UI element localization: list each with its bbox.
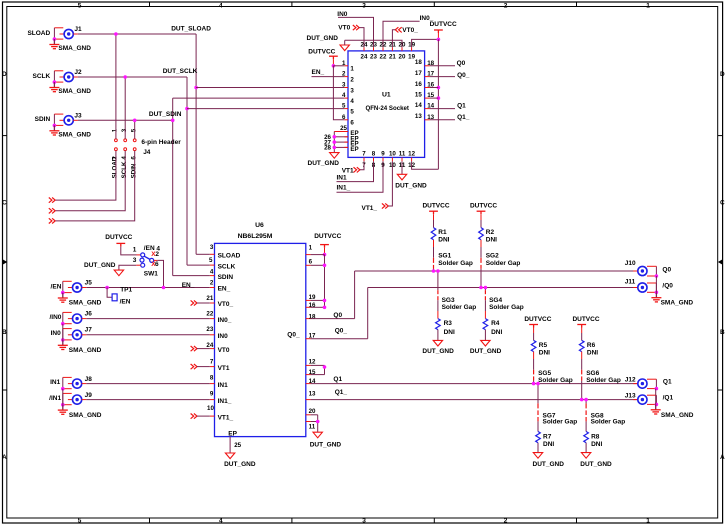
junction EP 27 (333, 140, 337, 144)
svg-text:24: 24 (206, 342, 213, 349)
op-amp U6 body (NB6L295M) (215, 243, 306, 436)
junction DUTVCC rail top (437, 38, 441, 42)
svg-text:DUTVCC: DUTVCC (524, 316, 551, 323)
svg-text:DUT_GND: DUT_GND (395, 182, 427, 189)
svg-text:R4: R4 (491, 320, 500, 327)
wire J2 to header pin3 (124, 77, 126, 139)
wire IN1_ to pin9 (337, 161, 384, 192)
svg-text:DUTVCC: DUTVCC (308, 49, 335, 56)
svg-text:21: 21 (206, 295, 213, 302)
junction pin16 DUTVCC (437, 86, 441, 90)
switch SW1 (141, 253, 145, 257)
svg-text:SG2: SG2 (486, 253, 499, 260)
wire Q1_ (U1 pin13) (430, 119, 455, 121)
wire U6 pins 12/15 tie (311, 364, 325, 366)
solder gap SG7 / resistor R7 column (537, 384, 539, 404)
svg-text:Q0_: Q0_ (335, 328, 348, 335)
junction U6 pin11 (316, 420, 320, 424)
ground DUT_GND (U1 EP) (330, 153, 339, 159)
U6 VT1_ chevron (191, 414, 197, 419)
junction U6 pin6 (323, 264, 327, 268)
wire header pin4 to chevron (56, 151, 126, 211)
off-page chevron SLOAD (49, 198, 55, 203)
svg-text:IN1_: IN1_ (218, 398, 232, 405)
wire J8/J9 ground link (62, 389, 64, 405)
svg-text:DNI: DNI (539, 350, 550, 357)
svg-text:/EN: /EN (51, 283, 62, 290)
svg-text:Q1: Q1 (663, 379, 672, 386)
svg-text:2: 2 (155, 251, 159, 258)
svg-text:13: 13 (309, 391, 316, 398)
svg-text:22: 22 (380, 54, 387, 61)
svg-text:R6: R6 (587, 342, 596, 349)
wire DUT_SDIN to U6 (173, 275, 210, 277)
svg-text:R5: R5 (539, 342, 548, 349)
svg-text:Solder Gap: Solder Gap (538, 377, 573, 384)
junction U6 pin1 (323, 253, 327, 257)
wire J3 to header pin5 (134, 120, 136, 139)
svg-text:6: 6 (309, 258, 313, 265)
svg-text:SCLK: SCLK (121, 161, 128, 178)
wire EN_ rail (86, 287, 210, 289)
svg-text:7: 7 (362, 151, 366, 158)
svg-text:SMA_GND: SMA_GND (69, 347, 102, 354)
U1 top pin stubs (363, 47, 365, 51)
svg-text:SCLK: SCLK (32, 73, 50, 80)
svg-text:22: 22 (206, 310, 213, 317)
svg-text:J10: J10 (625, 260, 636, 267)
svg-text:QFN-24 Socket: QFN-24 Socket (365, 105, 409, 112)
svg-text:TP1: TP1 (120, 286, 132, 293)
svg-text:SG4: SG4 (489, 297, 502, 304)
svg-text:J5: J5 (85, 279, 93, 286)
svg-text:5: 5 (209, 257, 213, 264)
ground DUT_GND (U6 pins 20/11) (313, 432, 322, 438)
wire Q1 net (311, 383, 638, 385)
svg-text:18: 18 (309, 313, 316, 320)
svg-text:B: B (720, 329, 725, 336)
svg-text:12: 12 (309, 359, 316, 366)
solder gap SG8 / resistor R8 column (585, 400, 587, 404)
wire IN0 to pin23 (338, 17, 374, 47)
svg-text:16: 16 (415, 81, 422, 88)
svg-text:VT1: VT1 (342, 167, 354, 174)
svg-text:SMA_GND: SMA_GND (58, 45, 91, 52)
off-page chevron SCLK (49, 208, 55, 213)
svg-text:DUT_SLOAD: DUT_SLOAD (171, 25, 211, 32)
wire VT0_ to pin21 (392, 30, 395, 48)
svg-text:A: A (2, 454, 7, 461)
svg-text:5: 5 (350, 108, 354, 115)
svg-text:4: 4 (350, 98, 354, 105)
svg-text:SDIN: SDIN (131, 163, 138, 178)
svg-text:C: C (720, 200, 725, 207)
svg-text:Q1_: Q1_ (335, 389, 348, 396)
svg-text:DUT_GND: DUT_GND (84, 262, 116, 269)
svg-text:DUT_GND: DUT_GND (224, 461, 256, 468)
svg-text:SMA_GND: SMA_GND (58, 88, 91, 95)
connector J3 (53, 114, 55, 125)
connector J4 6-pin header (115, 139, 118, 142)
ground SMA_GND (J5) (58, 293, 68, 303)
svg-text:13: 13 (415, 113, 422, 120)
junction U6 pin19 (323, 299, 327, 303)
svg-text:J1: J1 (74, 26, 82, 33)
svg-text:7: 7 (210, 359, 214, 366)
svg-text:3: 3 (362, 2, 366, 9)
junction DUT_SDIN/J3 (171, 119, 175, 123)
svg-text:J9: J9 (85, 392, 93, 399)
wire EP bus (333, 132, 335, 153)
svg-text:DUTVCC: DUTVCC (105, 234, 132, 241)
connector J1 (53, 28, 55, 39)
svg-text:VT0_: VT0_ (218, 301, 234, 308)
svg-text:VT1_: VT1_ (362, 205, 378, 212)
svg-text:A: A (720, 454, 725, 461)
svg-text:9: 9 (210, 390, 214, 397)
svg-text:DUT_GND: DUT_GND (307, 35, 339, 42)
svg-text:1: 1 (646, 2, 650, 9)
wire DUT_SCLK to U6 (187, 264, 210, 266)
svg-text:VT0: VT0 (338, 25, 350, 32)
svg-text:17: 17 (415, 70, 422, 77)
svg-text:U6: U6 (255, 222, 264, 229)
svg-text:Q0: Q0 (457, 60, 466, 67)
wire J6/J7 ground link (62, 324, 64, 340)
wire Q0_ net (311, 338, 368, 340)
svg-text:5: 5 (78, 2, 82, 9)
ground DUT_GND (U1 pin11) (401, 161, 403, 174)
wire header pin2 to chevron (56, 151, 116, 201)
svg-text:R3: R3 (444, 320, 453, 327)
junction pin15 DUTVCC (437, 96, 441, 100)
wire DUTVCC rail right side (437, 39, 439, 169)
svg-text:3: 3 (350, 87, 354, 94)
junction EP 26 (333, 135, 337, 139)
svg-text:SMA_GND: SMA_GND (58, 132, 91, 139)
ground SMA_GND (J12/J13) (651, 404, 661, 414)
wire Q1_ net (311, 399, 638, 401)
U6 VT0 chevron (191, 346, 197, 351)
svg-text:EP: EP (228, 430, 237, 437)
test point TP1 (107, 288, 112, 298)
svg-text:Solder Gap: Solder Gap (442, 304, 477, 311)
svg-text:SMA_GND: SMA_GND (661, 299, 694, 306)
ground SMA_GND (J1) (49, 39, 59, 49)
svg-text:20: 20 (309, 408, 316, 415)
U6 left pin stubs (210, 253, 215, 255)
svg-text:IN0: IN0 (51, 330, 62, 337)
svg-text:6-pin Header: 6-pin Header (141, 139, 181, 146)
solder gap SG4 / resistor R4 column (484, 288, 486, 291)
svg-text:IN0_: IN0_ (218, 317, 232, 324)
svg-text:3: 3 (362, 518, 366, 525)
svg-text:EN_: EN_ (182, 282, 195, 289)
wire Q1 (U1 pin14) (430, 108, 455, 110)
wire DUT_SDIN (78, 119, 173, 121)
svg-text:SLOAD: SLOAD (218, 253, 241, 260)
svg-text:J3: J3 (74, 112, 82, 119)
svg-text:/Q0: /Q0 (662, 283, 673, 290)
wire J10/J11 ground link (655, 276, 657, 292)
wire IN1_ J9 to U6 (86, 399, 210, 401)
svg-text:28: 28 (324, 145, 331, 152)
svg-text:VT1: VT1 (218, 365, 230, 372)
svg-text:4: 4 (210, 268, 214, 275)
svg-text:Q0: Q0 (662, 266, 671, 273)
svg-text:DNI: DNI (587, 350, 598, 357)
svg-text:IN0: IN0 (218, 333, 229, 340)
svg-text:Q1_: Q1_ (457, 114, 470, 121)
svg-text:U1: U1 (382, 92, 391, 99)
svg-text:SG5: SG5 (538, 370, 551, 377)
svg-text:/EN: /EN (120, 298, 131, 305)
svg-text:VT0_: VT0_ (402, 27, 418, 34)
svg-text:R8: R8 (591, 433, 600, 440)
svg-text:Solder Gap: Solder Gap (486, 260, 521, 267)
svg-text:SMA_GND: SMA_GND (69, 412, 102, 419)
svg-text:2: 2 (504, 2, 508, 9)
wire IN0_ J6 to U6 (86, 318, 210, 320)
svg-text:R7: R7 (543, 433, 552, 440)
svg-text:VT0: VT0 (218, 347, 230, 354)
svg-text:SDIN: SDIN (35, 116, 51, 123)
wire U6 DUTVCC rail (324, 255, 326, 308)
svg-text:SMA_GND: SMA_GND (69, 300, 102, 307)
svg-text:1: 1 (309, 245, 313, 252)
svg-text:21: 21 (389, 54, 396, 61)
wire DUT_SLOAD (78, 33, 196, 35)
solder gap SG3 / resistor R3 column (437, 271, 439, 290)
svg-text:3: 3 (121, 128, 128, 132)
connector J9 (62, 393, 64, 404)
ground SMA_GND (J2) (49, 82, 59, 92)
connector J8 (62, 377, 64, 388)
wire DUTVCC to pin19 (412, 39, 439, 47)
svg-text:Q0: Q0 (333, 312, 342, 319)
wire pin5 to DUT_SCLK (187, 108, 344, 110)
ground SMA_GND (J8/J9) (58, 405, 68, 415)
junction DUT_SCLK/pin5 (185, 107, 189, 111)
svg-text:DUTVCC: DUTVCC (470, 203, 497, 210)
svg-text:DNI: DNI (591, 441, 602, 448)
svg-text:20: 20 (399, 54, 406, 61)
svg-text:3: 3 (133, 257, 137, 264)
svg-text:Solder Gap: Solder Gap (591, 419, 626, 426)
ground DUT_GND (U6 EP) (225, 453, 234, 459)
svg-text:DUT_GND: DUT_GND (580, 461, 612, 468)
wire DUT_GND to pin20 (344, 40, 346, 45)
svg-text:8: 8 (210, 375, 214, 382)
U6 VT1 chevron (191, 364, 197, 369)
svg-text:5: 5 (131, 128, 138, 132)
svg-text:15: 15 (309, 369, 316, 376)
wire IN0 J7 to U6 (86, 334, 210, 336)
svg-text:DUT_GND: DUT_GND (310, 442, 342, 449)
svg-text:Solder Gap: Solder Gap (489, 304, 524, 311)
svg-text:VT1_: VT1_ (218, 414, 234, 421)
svg-text:4: 4 (219, 2, 223, 9)
svg-text:2: 2 (210, 280, 214, 287)
U1 right pin stubs (425, 65, 430, 67)
svg-text:11: 11 (399, 151, 406, 158)
wire IN1 to pin8 (337, 161, 374, 181)
off-page chevron SDIN (49, 218, 55, 223)
svg-text:1: 1 (350, 66, 354, 73)
svg-text:18: 18 (415, 59, 422, 66)
svg-text:SLOAD: SLOAD (112, 156, 119, 178)
svg-text:11: 11 (309, 423, 316, 430)
svg-text:DNI: DNI (543, 441, 554, 448)
svg-text:DUT_GND: DUT_GND (470, 348, 502, 355)
svg-text:J6: J6 (85, 310, 93, 317)
svg-text:19: 19 (408, 54, 415, 61)
svg-text:/IN1: /IN1 (49, 395, 61, 402)
svg-text:DUTVCC: DUTVCC (572, 316, 599, 323)
junction SW1/EN (162, 286, 166, 290)
wire DUT_SCLK (78, 76, 187, 78)
svg-text:6: 6 (155, 261, 159, 268)
connector J5 (62, 281, 64, 292)
connector J10 (655, 266, 657, 276)
wire IN1 J8 to U6 (86, 383, 210, 385)
wire EN_ to pin2 (312, 76, 345, 78)
connector J2 (53, 71, 55, 82)
ground SMA_GND (J10/J11) (651, 292, 661, 302)
svg-text:6: 6 (350, 120, 354, 127)
wire U6 pins 20/11 to ground (311, 414, 318, 416)
svg-text:9: 9 (381, 151, 385, 158)
ground DUT_GND (U1 pin20) (340, 45, 349, 51)
svg-text:25: 25 (234, 442, 241, 449)
svg-text:D: D (2, 71, 7, 78)
svg-text:25: 25 (340, 125, 347, 132)
svg-text:IN1_: IN1_ (337, 185, 351, 192)
svg-text:IN1: IN1 (218, 382, 229, 389)
wire J1 to header pin1 (115, 34, 117, 139)
svg-text:12: 12 (408, 151, 415, 158)
svg-text:DUTVCC: DUTVCC (430, 21, 457, 28)
op-amp U1 body (QFN-24 socket) (348, 51, 425, 157)
svg-text:C: C (2, 200, 7, 207)
svg-text:J2: J2 (74, 69, 82, 76)
wire header pin6 to chevron (56, 151, 135, 221)
svg-text:EN_: EN_ (312, 69, 325, 76)
wire IN0_ to pin22 (383, 21, 420, 47)
svg-text:DUTVCC: DUTVCC (422, 203, 449, 210)
svg-text:1: 1 (133, 247, 137, 254)
svg-text:J11: J11 (625, 278, 636, 285)
svg-text:1: 1 (112, 128, 119, 132)
ground SMA_GND (J3) (49, 125, 59, 135)
svg-text:14: 14 (415, 102, 422, 109)
svg-text:3: 3 (210, 244, 214, 251)
svg-text:Solder Gap: Solder Gap (586, 377, 621, 384)
wire pin16 stub (430, 87, 439, 89)
svg-text:DUT_GND: DUT_GND (308, 160, 340, 167)
svg-text:23: 23 (370, 54, 377, 61)
U1 bottom pin stubs (363, 157, 365, 161)
svg-text:DUTVCC: DUTVCC (314, 233, 341, 240)
wire pin4 to DUT_SDIN (173, 97, 345, 99)
wire DUTVCC to SW1 pin1 (121, 247, 137, 255)
svg-text:SCLK: SCLK (218, 263, 236, 270)
svg-text:10: 10 (207, 405, 214, 412)
svg-text:DUT_GND: DUT_GND (533, 461, 565, 468)
svg-text:24: 24 (361, 54, 368, 61)
junction U6 pin12 (323, 365, 327, 369)
svg-text:SDIN: SDIN (218, 274, 234, 281)
svg-text:IN1: IN1 (50, 379, 61, 386)
svg-text:R2: R2 (486, 229, 495, 236)
svg-text:J12: J12 (625, 377, 636, 384)
svg-text:/Q1: /Q1 (663, 395, 674, 402)
svg-text:D: D (720, 71, 725, 78)
svg-text:J13: J13 (625, 392, 636, 399)
svg-text:6: 6 (131, 156, 138, 160)
connector J7 (62, 329, 64, 340)
U6 right pin stubs (306, 254, 311, 256)
svg-text:NB6L295M: NB6L295M (238, 233, 273, 240)
connector J12 (655, 379, 657, 388)
svg-text:J4: J4 (143, 149, 151, 156)
svg-text:SW1: SW1 (144, 271, 158, 278)
svg-text:23: 23 (206, 326, 213, 333)
U1 EP pins 25-28 (334, 131, 348, 133)
svg-text:R1: R1 (438, 229, 447, 236)
svg-text:SMA_GND: SMA_GND (661, 412, 694, 419)
wire pin3 to DUT_SLOAD (196, 87, 344, 89)
U1 left pin stubs (344, 65, 348, 67)
label VT0_ with chevron (U1 pin21) (395, 27, 401, 32)
svg-text:SLOAD: SLOAD (27, 30, 50, 37)
wire Q0 (U1 pin18) (430, 65, 455, 67)
svg-text:2: 2 (504, 518, 508, 525)
svg-text:DUT_SDIN: DUT_SDIN (149, 111, 182, 118)
svg-text:10: 10 (389, 151, 396, 158)
power DUTVCC T (U1 pin19) (434, 30, 443, 33)
connector J13 (655, 395, 657, 404)
svg-text:J8: J8 (85, 376, 93, 383)
svg-text:DUT_GND: DUT_GND (422, 348, 454, 355)
junction U6 pin16 (323, 306, 327, 310)
svg-text:2: 2 (350, 76, 354, 83)
svg-text:SG1: SG1 (438, 253, 451, 260)
wire DUT_SLOAD to U6 (196, 253, 210, 255)
junction DUT_SLOAD/pin3 (194, 86, 198, 90)
svg-text:16: 16 (309, 302, 316, 309)
svg-text:IN1: IN1 (337, 174, 348, 181)
svg-text:Solder Gap: Solder Gap (438, 260, 473, 267)
svg-text:Q1: Q1 (457, 103, 466, 110)
U6 VT0_ chevron (191, 300, 197, 305)
svg-text:4: 4 (219, 518, 223, 525)
connector J6 (62, 312, 64, 323)
wire J12/J13 ground link (655, 389, 657, 405)
ground DUT_GND triangle (SW1) (114, 270, 123, 276)
wire Q0 net (311, 318, 355, 320)
svg-text:15: 15 (415, 92, 422, 99)
svg-text:1: 1 (646, 518, 650, 525)
wire DUTVCC to pin1 and pin6 (333, 65, 344, 67)
svg-text:EN_: EN_ (218, 286, 231, 293)
svg-text:Q0_: Q0_ (287, 331, 300, 338)
svg-text:4: 4 (121, 156, 128, 160)
svg-text:DUT_SCLK: DUT_SCLK (163, 68, 198, 75)
svg-text:DNI: DNI (491, 329, 502, 336)
wire pin15 stub (430, 97, 439, 99)
svg-text:B: B (2, 329, 7, 336)
